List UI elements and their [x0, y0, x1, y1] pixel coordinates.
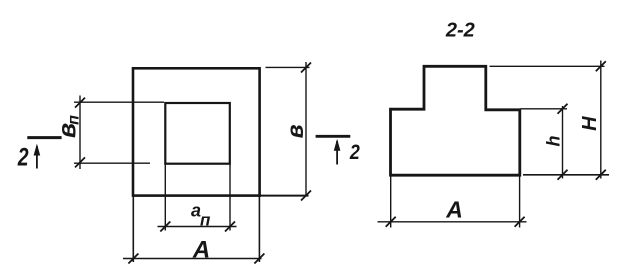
svg-text:ап: ап	[191, 201, 211, 230]
tick at left of an dimension	[160, 222, 170, 232]
section body outline (T profile)	[391, 66, 520, 175]
label H (rotated)	[579, 116, 601, 131]
dimension line an	[158, 226, 237, 228]
svg-text:п: п	[66, 115, 83, 125]
dimension line A (section bottom)	[378, 221, 527, 223]
tick at right of an dimension	[225, 222, 235, 232]
extension line: section A right	[519, 176, 521, 228]
extension line: Bn top (to inner square top-left corner)	[74, 101, 164, 103]
svg-text:Н: Н	[579, 116, 601, 131]
extension line: Bn bottom	[74, 162, 150, 164]
label A (section)	[445, 197, 463, 223]
tick at top of Bn dimension	[75, 98, 85, 108]
plan view: inner square (recess)	[165, 103, 230, 164]
dimension line h	[562, 106, 564, 179]
svg-text:2: 2	[17, 143, 29, 171]
section title 2-2	[445, 20, 475, 42]
extension line: an left (from inner square bottom-left corner)	[164, 164, 166, 231]
section arrow left (pointing up)	[34, 144, 41, 169]
extension line: outer square bottom edge extended right to B dimension	[260, 195, 309, 197]
svg-text:2-2: 2-2	[445, 20, 475, 42]
dimension line Bn (left side vertical)	[79, 96, 81, 170]
tick at bottom of B dimension	[301, 191, 311, 201]
svg-text:А: А	[445, 197, 463, 223]
tick at bottom of Bn dimension	[75, 157, 85, 167]
tick at left of A dimension (plan)	[128, 254, 138, 264]
tick at right of A dimension (section)	[515, 217, 525, 227]
dimension line H	[600, 61, 602, 179]
tick at right of A dimension (plan)	[254, 254, 264, 264]
label an (with subscript)	[191, 201, 211, 230]
label Bn (rotated, with subscript)	[53, 115, 82, 138]
svg-text:h: h	[544, 136, 564, 147]
extension line: boss top edge extended right to H dimension	[490, 65, 605, 67]
extension line: outer square top edge extended right to B dimension	[266, 66, 310, 68]
tick at bottom of h dimension	[558, 170, 568, 180]
extension line: outer square right edge extended down to A dimension	[258, 196, 260, 262]
tick at top of H dimension	[596, 61, 606, 71]
svg-text:2: 2	[349, 141, 360, 165]
label B (rotated)	[282, 124, 308, 138]
tick at bottom of H dimension	[596, 170, 606, 180]
extension line: an right (from inner square bottom-right corner)	[229, 164, 231, 231]
section arrow right (pointing up)	[334, 139, 341, 165]
tick at top of B dimension	[301, 63, 311, 73]
label 2 (left cut mark)	[17, 143, 29, 171]
label 2 (right cut mark)	[349, 141, 360, 165]
label h (rotated)	[544, 136, 564, 147]
label A (plan view)	[192, 236, 210, 263]
section cut line 2 (right thick stroke)	[316, 135, 351, 138]
extension line: outer square left edge extended down to A dimension	[132, 196, 134, 262]
dimension line B (right side vertical)	[305, 62, 307, 196]
svg-text:в: в	[282, 124, 308, 138]
extension line: section A left	[390, 176, 392, 228]
extension line: step extended right to h dimension	[521, 108, 568, 110]
tick at left of A dimension (section)	[386, 217, 396, 227]
tick at top of h dimension	[558, 104, 568, 114]
svg-text:А: А	[192, 236, 210, 263]
section cut line 2 (left thick stroke)	[27, 136, 61, 139]
plan view: outer square outline	[133, 68, 260, 195]
extension line: body bottom edge extended right to H dimension	[523, 174, 609, 176]
dimension line A (plan view bottom)	[123, 258, 262, 260]
